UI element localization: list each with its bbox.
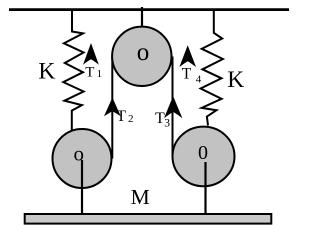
svg-text:0: 0 — [198, 142, 208, 164]
pulley P3 (bottom right) — [173, 127, 235, 187]
wire: top pulley hanger — [141, 7, 143, 28]
svg-text:2: 2 — [128, 113, 134, 125]
pulley P2 (bottom left) — [53, 129, 112, 188]
rope left (tangent to top pulley and left pulley) — [111, 57, 113, 159]
svg-text:T: T — [116, 108, 126, 125]
arrow T3 (on right rope) — [164, 96, 182, 118]
wire: right pulley to mass — [204, 162, 206, 214]
wire: left pulley to mass — [81, 160, 83, 214]
svg-text:3: 3 — [164, 117, 170, 129]
pulley P1 (top center) — [112, 27, 171, 86]
arrow T4 — [179, 45, 196, 67]
spring K1 (left) — [63, 9, 83, 130]
arrow T1 — [83, 43, 99, 65]
svg-text:4: 4 — [196, 74, 202, 86]
svg-text:K: K — [227, 67, 244, 93]
svg-text:o: o — [137, 39, 150, 66]
svg-text:T: T — [85, 65, 94, 81]
rope right (tangent to top pulley and right pulley) — [172, 57, 174, 157]
svg-text:M: M — [131, 185, 150, 209]
ceiling — [9, 8, 289, 11]
mass M bar — [25, 214, 272, 224]
spring K2 (right) — [201, 9, 223, 126]
svg-text:K: K — [38, 58, 55, 84]
arrow T2 (on left rope) — [104, 98, 121, 117]
svg-text:1: 1 — [97, 68, 103, 80]
svg-text:T: T — [182, 66, 192, 83]
